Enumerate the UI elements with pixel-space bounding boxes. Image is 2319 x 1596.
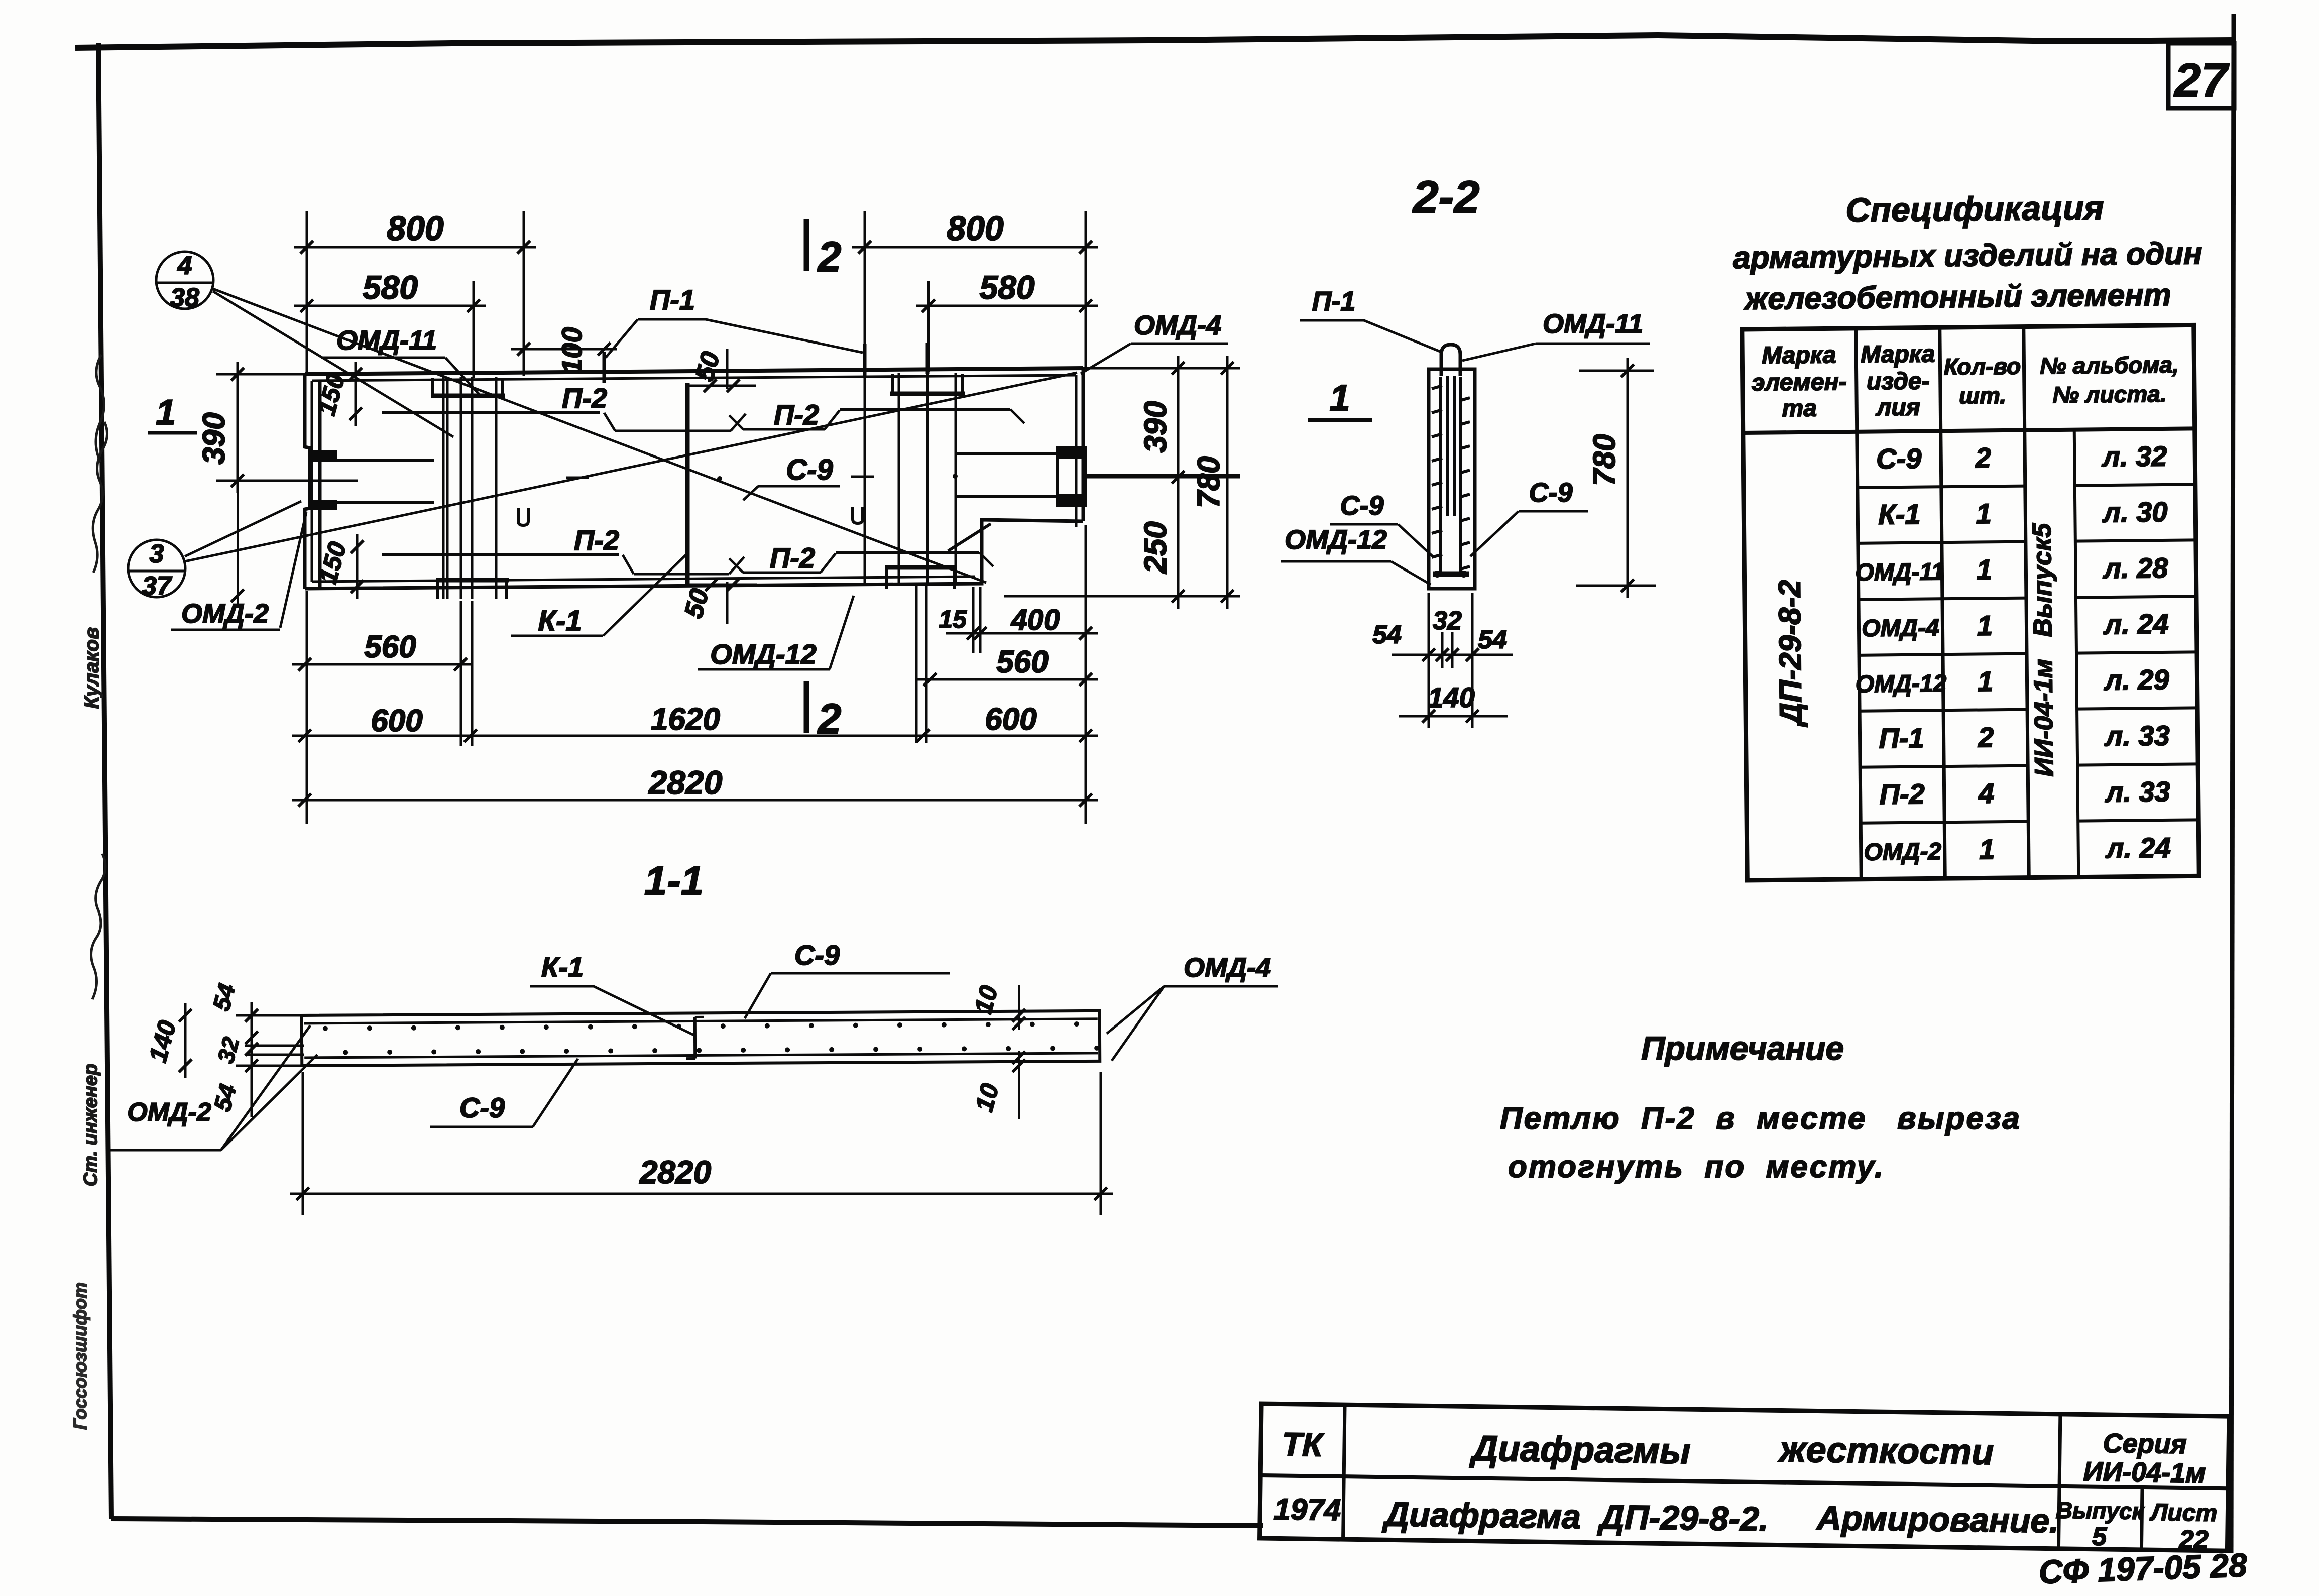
svg-text:ОМД-11: ОМД-11 [1855, 558, 1944, 586]
svg-text:1: 1 [1329, 377, 1350, 419]
svg-text:№ альбома,: № альбома, [2040, 352, 2179, 379]
svg-text:Марка: Марка [1762, 341, 1836, 369]
svg-text:ИИ-04-1м Выпуск5: ИИ-04-1м Выпуск5 [2028, 523, 2059, 777]
svg-text:2820: 2820 [639, 1154, 711, 1190]
svg-text:К-1: К-1 [1878, 498, 1921, 530]
svg-text:л. 28: л. 28 [2102, 552, 2169, 584]
svg-text:2-2: 2-2 [1412, 172, 1480, 223]
svg-text:580: 580 [979, 269, 1034, 306]
svg-text:л. 33: л. 33 [2104, 775, 2170, 808]
svg-text:ОМД-2: ОМД-2 [1864, 838, 1941, 865]
svg-text:П-2: П-2 [1879, 778, 1925, 810]
svg-text:ИИ-04-1м: ИИ-04-1м [2083, 1456, 2206, 1488]
svg-text:ОМД-2: ОМД-2 [181, 599, 269, 629]
svg-text:1-1: 1-1 [644, 858, 704, 904]
svg-text:л. 24: л. 24 [2103, 608, 2169, 640]
svg-text:Марка: Марка [1861, 340, 1935, 368]
svg-text:Диафрагмы: Диафрагмы [1469, 1428, 1691, 1471]
svg-text:Серия: Серия [2103, 1428, 2187, 1459]
svg-text:шт.: шт. [1959, 382, 2006, 409]
svg-text:Петлю П-2 в месте выреза: Петлю П-2 в месте выреза [1500, 1101, 2021, 1136]
svg-text:2820: 2820 [648, 764, 723, 801]
svg-text:3: 3 [150, 539, 164, 568]
svg-text:П-1: П-1 [1879, 722, 1924, 754]
svg-text:4: 4 [1978, 777, 1995, 809]
svg-text:ОМД-11: ОМД-11 [1543, 309, 1643, 339]
svg-text:С-9: С-9 [1340, 491, 1383, 521]
svg-text:800: 800 [387, 209, 444, 248]
svg-text:ОМД-12: ОМД-12 [710, 638, 817, 670]
svg-text:800: 800 [947, 209, 1004, 248]
svg-text:Спецификация: Спецификация [1845, 189, 2104, 230]
svg-text:38: 38 [170, 283, 199, 312]
svg-text:№ листа.: № листа. [2052, 381, 2167, 408]
svg-text:арматурных изделий на один: арматурных изделий на один [1733, 236, 2202, 275]
svg-text:27: 27 [2173, 54, 2230, 107]
svg-text:600: 600 [371, 704, 422, 738]
svg-text:Госсоюзшифот: Госсоюзшифот [70, 1282, 90, 1430]
svg-text:15: 15 [939, 605, 967, 633]
svg-text:та: та [1782, 395, 1817, 422]
svg-text:54: 54 [208, 981, 241, 1013]
svg-text:С-9: С-9 [459, 1092, 505, 1123]
svg-text:ОМД-12: ОМД-12 [1285, 525, 1387, 555]
svg-text:4: 4 [177, 251, 192, 280]
svg-text:л. 32: л. 32 [2101, 440, 2167, 472]
svg-text:1: 1 [1976, 498, 1992, 529]
svg-text:С-9: С-9 [1876, 442, 1922, 475]
svg-text:Примечание: Примечание [1641, 1030, 1844, 1067]
svg-text:5: 5 [2092, 1522, 2108, 1551]
svg-text:П-1: П-1 [1312, 286, 1356, 316]
svg-text:СФ 197-05 28: СФ 197-05 28 [2038, 1546, 2248, 1590]
svg-text:железобетонный элемент: железобетонный элемент [1743, 278, 2171, 316]
svg-text:400: 400 [1011, 604, 1060, 636]
svg-text:1: 1 [1977, 553, 1993, 585]
svg-text:К-1: К-1 [538, 605, 582, 637]
svg-text:л. 29: л. 29 [2103, 663, 2169, 696]
svg-text:54: 54 [209, 1081, 242, 1114]
svg-text:ОМД-11: ОМД-11 [336, 325, 437, 356]
svg-text:ОМД-2: ОМД-2 [127, 1098, 211, 1127]
svg-text:1: 1 [156, 393, 176, 433]
svg-text:780: 780 [1192, 456, 1226, 508]
svg-text:2: 2 [817, 233, 842, 280]
svg-text:Кол-во: Кол-во [1944, 353, 2021, 380]
svg-text:390: 390 [1138, 401, 1173, 452]
svg-text:560: 560 [996, 645, 1048, 679]
svg-text:элемен-: элемен- [1752, 369, 1847, 396]
svg-text:250: 250 [1138, 521, 1173, 574]
svg-text:П-2: П-2 [562, 382, 607, 414]
svg-text:жесткости: жесткости [1777, 1429, 1994, 1472]
svg-text:150: 150 [312, 371, 351, 418]
svg-text:П-2: П-2 [770, 542, 815, 574]
svg-text:140: 140 [1428, 681, 1474, 713]
svg-text:П-1: П-1 [650, 284, 695, 315]
svg-text:С-9: С-9 [794, 939, 840, 971]
svg-text:1620: 1620 [651, 702, 720, 737]
svg-text:580: 580 [363, 269, 418, 306]
svg-text:ДП-29-8-2: ДП-29-8-2 [1773, 580, 1809, 728]
svg-text:32: 32 [1433, 606, 1462, 635]
svg-text:ОМД-4: ОМД-4 [1184, 953, 1271, 983]
svg-text:2: 2 [1978, 721, 1994, 753]
svg-text:ОМД-4: ОМД-4 [1862, 615, 1939, 642]
svg-text:Ст. инженер: Ст. инженер [80, 1064, 101, 1186]
svg-text:50: 50 [679, 586, 715, 621]
svg-text:1974: 1974 [1273, 1492, 1341, 1527]
svg-text:140: 140 [144, 1017, 182, 1065]
svg-text:л. 30: л. 30 [2102, 496, 2168, 528]
svg-text:П-2: П-2 [774, 399, 819, 430]
svg-text:Армирование.: Армирование. [1816, 1499, 2059, 1540]
svg-text:отогнуть по месту.: отогнуть по месту. [1508, 1150, 1885, 1184]
svg-text:ОМД-12: ОМД-12 [1856, 670, 1947, 698]
svg-text:390: 390 [197, 412, 231, 464]
svg-text:П-2: П-2 [574, 524, 619, 556]
svg-text:изде-: изде- [1867, 368, 1930, 395]
svg-text:лия: лия [1875, 394, 1920, 421]
svg-text:1: 1 [1978, 665, 1994, 697]
svg-text:Лист: Лист [2149, 1499, 2217, 1527]
svg-text:37: 37 [142, 572, 172, 601]
svg-text:600: 600 [985, 702, 1036, 737]
svg-text:С-9: С-9 [786, 453, 833, 486]
svg-text:Диафрагма ДП-29-8-2.: Диафрагма ДП-29-8-2. [1382, 1495, 1769, 1538]
svg-text:1: 1 [1979, 833, 1995, 865]
svg-text:л. 33: л. 33 [2104, 720, 2170, 752]
svg-text:л. 24: л. 24 [2105, 832, 2171, 864]
svg-text:Кулаков: Кулаков [81, 627, 103, 709]
svg-text:ТК: ТК [1282, 1426, 1325, 1463]
svg-text:К-1: К-1 [541, 951, 584, 983]
svg-text:32: 32 [212, 1034, 245, 1066]
svg-text:1: 1 [1977, 610, 1993, 641]
svg-text:Выпуск: Выпуск [2056, 1497, 2145, 1524]
svg-text:54: 54 [1478, 625, 1507, 654]
svg-text:100: 100 [556, 327, 588, 374]
svg-text:780: 780 [1587, 434, 1622, 486]
svg-text:2: 2 [1975, 442, 1991, 474]
svg-text:С-9: С-9 [1529, 478, 1572, 508]
svg-text:560: 560 [364, 630, 416, 664]
svg-text:ОМД-4: ОМД-4 [1134, 310, 1221, 340]
svg-text:10: 10 [970, 1080, 1004, 1114]
svg-text:54: 54 [1372, 620, 1402, 649]
